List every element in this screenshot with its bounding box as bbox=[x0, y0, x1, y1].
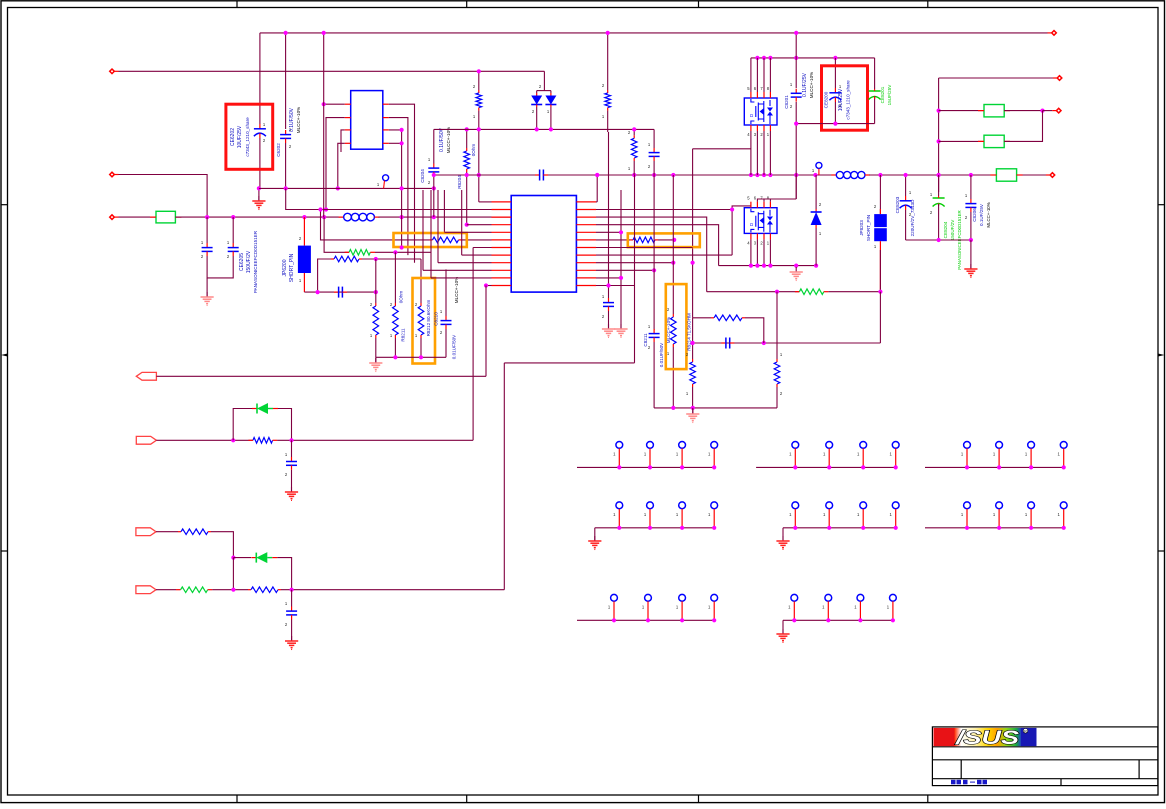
column x634 down to port wire bbox=[634, 175, 636, 363]
gnd rail y188 bbox=[259, 187, 434, 189]
highlight orange box R8213 bbox=[628, 233, 700, 247]
svg-text:JP6200: JP6200 bbox=[282, 259, 288, 276]
svg-text:C8206: C8206 bbox=[972, 208, 977, 222]
U8200 right row wires bbox=[596, 201, 597, 203]
ground port2 bbox=[291, 487, 293, 492]
svg-text:C8201: C8201 bbox=[784, 95, 789, 109]
resistor R8210 bbox=[375, 303, 377, 306]
highlight orange box R8214 bbox=[666, 284, 687, 369]
svg-text:SHORT_PIN: SHORT_PIN bbox=[289, 253, 295, 282]
resistor R6203 bbox=[253, 438, 273, 444]
capacitor CE8204 green bbox=[938, 175, 940, 196]
left row0 from R8201 column bbox=[478, 129, 480, 202]
vertical x233 to port4 bbox=[232, 558, 234, 590]
svg-text:MLCC+-10%: MLCC+-10% bbox=[454, 277, 459, 303]
diode D8200 bbox=[815, 175, 817, 209]
vertical x692 column bbox=[692, 149, 694, 318]
resistor R6204 bbox=[178, 531, 181, 533]
svg-text:0.01UF/50V: 0.01UF/50V bbox=[659, 342, 664, 367]
wire port2 segment bbox=[156, 439, 253, 441]
border arrow right bbox=[1158, 354, 1165, 357]
fuse/bead green box PB6200 bbox=[156, 211, 175, 223]
resistor R8202 in left orange box bbox=[321, 210, 430, 240]
Q8202 top pin connections bbox=[757, 199, 796, 202]
capacitor CE6202 electrolytic bbox=[259, 124, 261, 129]
resistor R8216 loop bbox=[693, 317, 711, 319]
test points row A group 3 bbox=[925, 466, 1064, 468]
resistor R8214 bbox=[672, 314, 674, 317]
wire U6200 right pins 3-4 drop bbox=[389, 130, 402, 248]
ground bus y265 bbox=[795, 265, 797, 267]
wire U6200 pin3 stub bbox=[341, 130, 345, 152]
wire loop x317 vertical bbox=[318, 259, 331, 292]
resistor R8217 bbox=[692, 359, 694, 362]
U8200 left row wires bbox=[467, 224, 492, 226]
column x621 ground bbox=[620, 324, 622, 329]
svg-text:0.01UF/50V: 0.01UF/50V bbox=[452, 334, 457, 359]
highlight red box CE8200 bbox=[822, 66, 868, 130]
resistor R6205 green bbox=[176, 589, 181, 591]
resistor R8212 bbox=[420, 303, 422, 306]
port P4 input arrow bbox=[136, 586, 156, 594]
junction dots left rows bbox=[400, 245, 404, 249]
column x673 R8214 bbox=[672, 175, 674, 314]
title block date text bbox=[951, 780, 987, 785]
svg-text:0Ohm: 0Ohm bbox=[399, 291, 404, 304]
vertical x395 to resistor bbox=[394, 252, 396, 303]
svg-text:R: R bbox=[1024, 730, 1027, 734]
wire y78 to terminal bbox=[939, 77, 1053, 79]
resistor R8203 column down bbox=[607, 111, 609, 132]
wire y407 bottom bbox=[654, 407, 777, 409]
wire U6200 pin1 to x323 rail bbox=[324, 103, 345, 105]
wire port3 bbox=[156, 531, 178, 533]
left short col row7 bbox=[461, 190, 463, 255]
wire resistor bottoms y357 bbox=[376, 356, 446, 358]
vertical x421 to R8212 bbox=[420, 259, 422, 303]
ground y407 bbox=[692, 408, 694, 414]
resistor-capacitor pair mid x634 bbox=[633, 129, 635, 135]
wire x478 vertical bbox=[478, 71, 480, 90]
port P1 output arrow bbox=[136, 372, 156, 380]
svg-text:CE6202: CE6202 bbox=[230, 128, 236, 146]
main bus rail y175 bbox=[434, 174, 535, 176]
vertical x259 from rail bbox=[259, 33, 261, 124]
capacitor C6202 bbox=[285, 130, 287, 135]
wire y148 branch bbox=[693, 148, 751, 150]
capacitor C6201 horizontal bbox=[334, 291, 339, 293]
column x608 to ground bbox=[608, 298, 610, 303]
svg-text:MLCC+-10%: MLCC+-10% bbox=[809, 72, 814, 98]
svg-text:PANASONICEEFCD0D151ER: PANASONICEEFCD0D151ER bbox=[253, 230, 258, 293]
svg-text:R8212 80.6KOhm: R8212 80.6KOhm bbox=[426, 299, 431, 336]
wire y343 bbox=[693, 342, 881, 344]
terminal diamond top rail bbox=[1052, 31, 1057, 36]
rail y175 right part with inductor bbox=[831, 174, 836, 176]
wire port4 column up bbox=[503, 363, 505, 590]
open circle terminal x818 bbox=[816, 162, 822, 168]
wire port2 column to row7 bbox=[473, 247, 491, 249]
node VIN terminal bbox=[110, 69, 115, 74]
resistor R6206 bbox=[248, 589, 251, 591]
svg-text:MLCC+-10%: MLCC+-10% bbox=[446, 127, 451, 153]
resistor pack green box3 bbox=[1021, 174, 1049, 176]
vertical x323 rail bbox=[323, 33, 325, 217]
highlight orange box R8212 bbox=[413, 278, 436, 364]
transistor Q8201 mosfet bbox=[744, 98, 777, 125]
svg-text:C8211: C8211 bbox=[643, 333, 648, 347]
wire y175 left stub into cluster bbox=[904, 173, 908, 177]
capacitor C8206 bbox=[970, 175, 972, 199]
capacitor C8210 bbox=[445, 269, 447, 316]
jumper JP6200 SHORT_PIN bbox=[303, 217, 305, 246]
vertical x938 bbox=[938, 78, 940, 192]
led D6202 green bbox=[251, 557, 256, 559]
ground CE6202 bbox=[258, 188, 260, 201]
svg-text:150UF/2V: 150UF/2V bbox=[246, 250, 252, 273]
title block frame bbox=[932, 727, 1157, 786]
test points row B group 1 with ground bbox=[595, 527, 714, 529]
wire y291 green resistor bbox=[707, 291, 800, 293]
capacitor C8204 bbox=[433, 129, 435, 163]
vertical x692 lower bbox=[692, 318, 694, 359]
ground col x608 bbox=[608, 324, 610, 329]
resistor pack green box2 bbox=[939, 140, 984, 142]
resistor R8204 bbox=[466, 129, 468, 148]
Q8202 bottom pins to bus bbox=[750, 239, 752, 265]
resistor R8203 vertical bbox=[607, 33, 609, 90]
U8200 right pin stubs bbox=[576, 201, 596, 203]
svg-text:MLCC+-10%: MLCC+-10% bbox=[296, 107, 301, 133]
wire bus y129 bbox=[434, 128, 654, 130]
left short col row8 bbox=[437, 190, 439, 263]
wire top rail y33 bbox=[260, 32, 1048, 34]
U6200 left pins bbox=[345, 103, 351, 105]
wire loop left vertical x324 bbox=[324, 217, 349, 252]
capacitor C8211 bbox=[653, 329, 655, 334]
vertical x880 to y343 bbox=[879, 292, 881, 343]
resistor R8211 bbox=[394, 303, 396, 306]
left short col row4 bbox=[443, 190, 445, 232]
wire CE6205 bottoms join bbox=[207, 256, 233, 278]
diode row y557 bbox=[231, 556, 235, 560]
highlight orange box R8202 bbox=[394, 233, 467, 247]
ground CE6205 bbox=[206, 292, 208, 297]
wire r6201 right bbox=[362, 258, 421, 260]
left short col row9 bbox=[422, 190, 424, 270]
transistor Q8202 mosfet bbox=[744, 208, 777, 234]
wire y220 main bbox=[175, 216, 343, 218]
svg-text:C6202: C6202 bbox=[276, 143, 281, 157]
diode pair D6200 bridge bbox=[543, 71, 545, 90]
ground right cluster bbox=[970, 264, 972, 269]
resistor R8218 bbox=[776, 359, 778, 362]
svg-text:220UF/2V_7343D: 220UF/2V_7343D bbox=[910, 199, 915, 236]
led D6201 green bbox=[252, 408, 257, 410]
svg-text:C8210: C8210 bbox=[434, 312, 439, 326]
svg-text:CE8203: CE8203 bbox=[895, 196, 900, 213]
capacitor CE8201 green bbox=[874, 58, 876, 89]
svg-text:JP8203: JP8203 bbox=[859, 220, 864, 236]
test points row B group 3 bbox=[925, 527, 1064, 529]
svg-text:c7343_1210_share: c7343_1210_share bbox=[846, 80, 851, 120]
border zone ticks left bbox=[1, 204, 8, 206]
node terminal y220 bbox=[110, 215, 115, 220]
capacitor CE6205 pair - vertical drops bbox=[206, 217, 208, 243]
test points row B group 2 with ground bbox=[783, 527, 896, 529]
border zone ticks bottom bbox=[236, 795, 238, 802]
wire port4 start bbox=[156, 589, 176, 591]
wire port1 column to row12 bbox=[486, 285, 492, 287]
capacitor CE6205 right bbox=[232, 243, 234, 248]
vertical x285 from rail bbox=[285, 33, 287, 129]
port P2 input arrow bbox=[136, 436, 156, 444]
Q8201 bottom pin wires bbox=[750, 131, 752, 175]
svg-text:0.1UF/25V: 0.1UF/25V bbox=[979, 203, 984, 226]
vertical x777 resistor bbox=[776, 292, 778, 359]
diode loop port2 bbox=[233, 409, 252, 441]
test points row A group 2 bbox=[756, 466, 896, 468]
svg-text:C8204: C8204 bbox=[420, 169, 425, 183]
op-amp U6200 regulator box bbox=[351, 91, 383, 150]
wire U6200 pin2 to row0 bbox=[326, 118, 345, 210]
svg-text:SHORT_PIN: SHORT_PIN bbox=[866, 215, 871, 241]
test points row C group 1 bbox=[577, 619, 714, 621]
svg-text:0.1UF/50V: 0.1UF/50V bbox=[289, 107, 295, 132]
svg-text:10UF/25V: 10UF/25V bbox=[838, 88, 844, 111]
wire green resistor to right bbox=[375, 251, 431, 253]
resistor pack green box1 bbox=[939, 110, 984, 112]
resistor R6201 horizontal bbox=[331, 258, 334, 260]
resistor R8213 in orange box bbox=[630, 239, 633, 241]
svg-text:c7343_1210_share: c7343_1210_share bbox=[245, 117, 250, 157]
wire y123 under caps bbox=[796, 123, 874, 125]
resistor green R6202 bbox=[345, 251, 350, 253]
column x654 C8211 bbox=[653, 175, 655, 330]
wire port1 to column bbox=[156, 375, 486, 377]
capacitor CE6205 left bbox=[206, 243, 208, 248]
svg-text:R8211: R8211 bbox=[401, 328, 406, 342]
node terminal y174 bbox=[110, 172, 115, 177]
jumper JP8203 SHORT_PIN bbox=[879, 175, 881, 214]
wire y240 cap bottoms bbox=[906, 239, 971, 241]
capacitor C6203 bbox=[291, 440, 293, 457]
capacitor C6204 bbox=[291, 590, 293, 607]
left short col row10 bbox=[430, 190, 432, 278]
wire y292 bottom loop bbox=[304, 291, 375, 293]
border zone ticks top bbox=[236, 1, 238, 8]
border arrow left bbox=[1, 354, 8, 357]
svg-text:CE8201: CE8201 bbox=[880, 86, 885, 103]
capacitor C8212 on y343 bbox=[721, 342, 726, 344]
series capacitor on rail bbox=[535, 174, 540, 176]
vertical x375 to R8211 bbox=[375, 259, 377, 303]
svg-text:15UF/25V: 15UF/25V bbox=[887, 84, 892, 106]
svg-text:150UF/2V: 150UF/2V bbox=[950, 219, 955, 241]
svg-text:R8204: R8204 bbox=[457, 175, 462, 189]
wire y362 across bbox=[504, 362, 634, 364]
resistor R8215 green bbox=[795, 291, 800, 293]
inductor L6200 bbox=[339, 216, 344, 218]
U6200 right pins bbox=[383, 103, 389, 105]
wire U6200 right pin2 drop bbox=[389, 118, 408, 256]
test points row A group 1 bbox=[577, 466, 714, 468]
ground resistor network bbox=[375, 357, 377, 363]
wire bus y265 bbox=[719, 265, 817, 267]
capacitor mid x654 bbox=[653, 129, 655, 148]
op-amp U8200 main controller IC bbox=[511, 196, 576, 293]
open circle terminal on gnd rail bbox=[383, 175, 389, 181]
gnd rail tap to row1 bbox=[286, 188, 492, 209]
svg-text:MLCC+-10%: MLCC+-10% bbox=[986, 202, 991, 227]
wire mosfet top bus y58 bbox=[751, 57, 875, 59]
svg-text:/SUS: /SUS bbox=[955, 728, 1020, 749]
svg-text:0Ohm: 0Ohm bbox=[471, 144, 476, 157]
U8200 left pin stubs bbox=[492, 201, 512, 203]
capacitor CE8200 electrolytic bbox=[834, 58, 836, 88]
ground port4 bbox=[291, 636, 293, 641]
svg-text:0.1UF/25V: 0.1UF/25V bbox=[802, 72, 808, 97]
highlight red box CE6202 bbox=[226, 104, 273, 169]
resistor R8201 vertical bbox=[478, 90, 480, 93]
wire U6200 right pin1 drop bbox=[389, 104, 415, 263]
wire U6200 pin4 to gnd rail bbox=[338, 143, 345, 188]
svg-text:10UF/25V: 10UF/25V bbox=[237, 125, 243, 148]
svg-text:CE6205: CE6205 bbox=[239, 253, 245, 271]
svg-text:CE8204: CE8204 bbox=[943, 221, 948, 238]
capacitor CE8203 bbox=[905, 175, 907, 196]
svg-text:CE8200: CE8200 bbox=[824, 91, 829, 108]
svg-text:R8214 71.5KOHM: R8214 71.5KOHM bbox=[687, 313, 692, 351]
port P3 input arrow bbox=[136, 528, 156, 536]
wire inductor to IC pin bbox=[378, 216, 511, 218]
test points row C group 2 with ground bbox=[783, 619, 893, 621]
border zone ticks right bbox=[1158, 204, 1165, 206]
capacitor C8201 bbox=[795, 33, 797, 88]
svg-text:0.1UF/50V: 0.1UF/50V bbox=[439, 127, 445, 152]
